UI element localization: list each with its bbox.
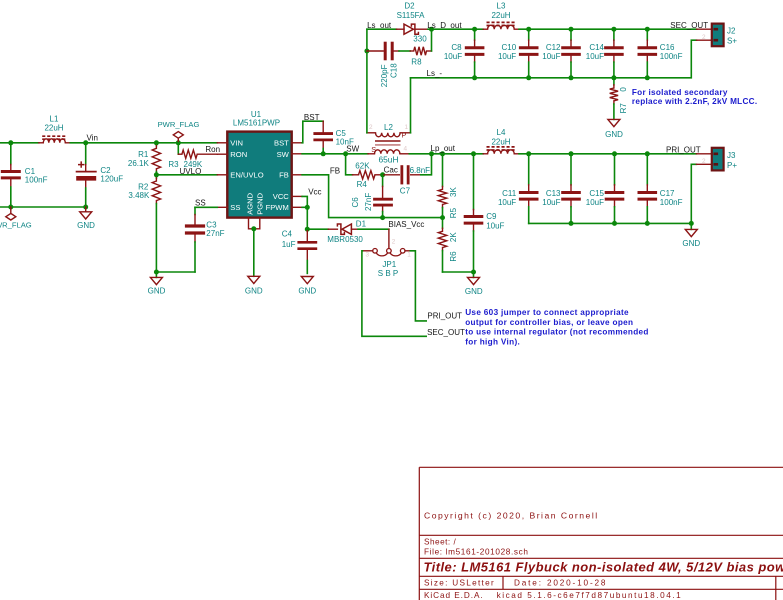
junction SW to R4 bbox=[343, 151, 348, 156]
capacitor C2 polarized bbox=[85, 143, 87, 165]
svg-text:D1: D1 bbox=[356, 219, 367, 228]
svg-text:1: 1 bbox=[407, 252, 411, 259]
wire Lp_out bbox=[409, 153, 483, 155]
wire gnd R2/C3 bbox=[156, 271, 195, 273]
junction C8 bottom bbox=[472, 75, 477, 80]
junction Cac node bbox=[380, 172, 385, 177]
pin RON stub bbox=[217, 153, 227, 155]
svg-text:Vin: Vin bbox=[87, 134, 98, 143]
wire gnd rail C1-C2 bbox=[0, 206, 86, 208]
wire L2 sec left vertical bbox=[366, 29, 368, 133]
junction R1 top bbox=[154, 140, 159, 145]
wire C18 to R8 bbox=[399, 50, 410, 52]
junction C16 bottom bbox=[645, 75, 650, 80]
svg-text:VIN: VIN bbox=[230, 138, 243, 147]
svg-text:C13: C13 bbox=[546, 189, 561, 198]
svg-text:S: S bbox=[371, 145, 376, 154]
svg-text:GND: GND bbox=[245, 286, 263, 295]
svg-text:PRI_OUT: PRI_OUT bbox=[427, 312, 462, 321]
wire R6 to gnd node bbox=[443, 271, 474, 273]
svg-text:JP1: JP1 bbox=[382, 260, 396, 269]
jumper JP1 bbox=[388, 229, 390, 248]
svg-text:Size: USLetter: Size: USLetter bbox=[424, 579, 495, 588]
ground GND below C9 bbox=[473, 272, 475, 277]
resistor R5 bbox=[442, 154, 444, 187]
pin VCC stub bbox=[292, 195, 302, 197]
svg-text:C8: C8 bbox=[451, 43, 462, 52]
svg-text:Use 603 jumper to connect appr: Use 603 jumper to connect appropriate bbox=[465, 308, 629, 317]
svg-text:22uH: 22uH bbox=[491, 137, 510, 146]
svg-text:C7: C7 bbox=[400, 187, 411, 196]
junction C10 top bbox=[526, 27, 531, 32]
pin BST stub bbox=[292, 142, 302, 144]
svg-text:C12: C12 bbox=[546, 43, 561, 52]
capacitor C3 bbox=[194, 207, 196, 214]
svg-text:C10: C10 bbox=[502, 43, 517, 52]
svg-text:Sheet: /: Sheet: / bbox=[424, 538, 456, 547]
svg-text:R7: R7 bbox=[619, 103, 628, 114]
svg-text:C4: C4 bbox=[282, 229, 293, 238]
capacitor C17 bbox=[646, 154, 648, 185]
svg-text:1uF: 1uF bbox=[282, 240, 296, 249]
junction C13 top bbox=[569, 151, 574, 156]
svg-text:D2: D2 bbox=[404, 1, 415, 10]
junction C11 top bbox=[526, 151, 531, 156]
svg-text:For isolated secondary: For isolated secondary bbox=[632, 88, 728, 97]
connector J3 bbox=[696, 153, 711, 155]
wire FPWM to C4 node bbox=[302, 207, 307, 229]
svg-text:2: 2 bbox=[702, 34, 706, 41]
svg-text:PGND: PGND bbox=[256, 192, 265, 214]
svg-text:2: 2 bbox=[392, 239, 396, 246]
junction C14 top bbox=[611, 27, 616, 32]
resistor R8 bbox=[410, 50, 414, 52]
resistor R6 bbox=[442, 218, 444, 229]
wire Ls_D_out to C8 bbox=[428, 28, 475, 30]
capacitor C14 bbox=[613, 29, 615, 40]
svg-text:GND: GND bbox=[682, 239, 700, 248]
wire EN/UVLO bbox=[156, 174, 217, 176]
svg-text:R1: R1 bbox=[138, 150, 149, 159]
svg-text:FB: FB bbox=[330, 167, 340, 176]
svg-text:C11: C11 bbox=[502, 189, 517, 198]
capacitor C15 bbox=[614, 154, 616, 185]
svg-text:SS: SS bbox=[230, 203, 240, 212]
pin FB stub bbox=[292, 174, 302, 176]
IC U1 LM5161PWP body bbox=[227, 132, 291, 218]
junction rail right bbox=[689, 221, 694, 226]
svg-text:C9: C9 bbox=[486, 212, 497, 221]
junction R5/R6 FB node bbox=[440, 215, 445, 220]
inductor L4 bbox=[483, 153, 487, 155]
svg-text:SS: SS bbox=[195, 198, 206, 207]
svg-text:RON: RON bbox=[230, 150, 247, 159]
ground GND below C2 bbox=[85, 207, 87, 212]
svg-text:C16: C16 bbox=[660, 43, 675, 52]
capacitor C13 bbox=[570, 154, 572, 185]
svg-text:C14: C14 bbox=[589, 43, 604, 52]
ground GND below C4 bbox=[301, 277, 313, 284]
svg-text:65uH: 65uH bbox=[378, 154, 398, 164]
svg-text:Ron: Ron bbox=[205, 145, 220, 154]
svg-text:GND: GND bbox=[298, 286, 316, 295]
junction C6 bottom bbox=[380, 215, 385, 220]
svg-text:0: 0 bbox=[619, 87, 628, 92]
svg-text:C15: C15 bbox=[589, 189, 604, 198]
pin PGND stub bbox=[254, 218, 260, 229]
svg-text:PRI_OUT: PRI_OUT bbox=[666, 145, 701, 154]
svg-text:P+: P+ bbox=[727, 161, 737, 170]
svg-text:EN/UVLO: EN/UVLO bbox=[230, 171, 263, 180]
svg-text:27nF: 27nF bbox=[364, 193, 373, 211]
svg-text:10uF: 10uF bbox=[498, 198, 516, 207]
junction Ls_D_out bbox=[429, 27, 434, 32]
ground GND below R2 bbox=[155, 272, 157, 277]
svg-text:to use internal regulator (not: to use internal regulator (not recommend… bbox=[465, 328, 649, 337]
svg-text:BIAS_Vcc: BIAS_Vcc bbox=[388, 220, 424, 229]
inductor L3 bbox=[475, 28, 484, 30]
svg-text:KiCad E.D.A.: KiCad E.D.A. bbox=[424, 591, 484, 600]
junction Vcc/D1/C4 bbox=[305, 227, 310, 232]
wire rail up to J3 pin2 bbox=[691, 164, 696, 223]
svg-text:MBR0530: MBR0530 bbox=[327, 235, 363, 244]
junction C9/R6 gnd bbox=[471, 270, 476, 275]
svg-text:J3: J3 bbox=[727, 151, 736, 160]
ground GND rail right bbox=[690, 223, 692, 229]
svg-text:C6: C6 bbox=[351, 197, 360, 208]
svg-text:S B P: S B P bbox=[378, 269, 398, 278]
svg-text:GND: GND bbox=[148, 286, 166, 295]
svg-text:120uF: 120uF bbox=[100, 175, 123, 184]
svg-text:3: 3 bbox=[366, 252, 370, 259]
wire Vin input line bbox=[0, 142, 39, 144]
svg-text:GND: GND bbox=[605, 130, 623, 139]
svg-text:10uF: 10uF bbox=[486, 221, 504, 230]
svg-text:S115FA: S115FA bbox=[397, 11, 426, 20]
svg-text:P: P bbox=[402, 130, 407, 139]
svg-text:replace with 2.2nF, 2kV MLCC.: replace with 2.2nF, 2kV MLCC. bbox=[632, 97, 758, 106]
svg-text:C3: C3 bbox=[206, 220, 217, 229]
svg-text:L4: L4 bbox=[497, 128, 506, 137]
svg-text:R8: R8 bbox=[411, 58, 422, 67]
junction EN node bbox=[154, 172, 159, 177]
wire L2 sec right vertical to Ls_- bbox=[410, 78, 412, 133]
junction Lp_out at C7 bbox=[429, 151, 434, 156]
junction FPWM bbox=[305, 205, 310, 210]
svg-text:C18: C18 bbox=[390, 63, 399, 78]
svg-text:Title: LM5161 Flybuck non-isol: Title: LM5161 Flybuck non-isolated 4W, 5… bbox=[424, 560, 783, 575]
pin VIN stub bbox=[217, 142, 227, 144]
capacitor C7 bbox=[383, 174, 400, 176]
svg-text:R5: R5 bbox=[449, 207, 458, 218]
wire sec top rail bbox=[519, 28, 697, 30]
svg-text:3.48K: 3.48K bbox=[128, 191, 150, 200]
svg-text:FB: FB bbox=[279, 171, 289, 180]
svg-text:Lp_out: Lp_out bbox=[431, 144, 456, 153]
pin AGND stub bbox=[249, 218, 254, 229]
pin SW stub bbox=[292, 153, 302, 155]
svg-text:SEC_OUT: SEC_OUT bbox=[670, 21, 708, 30]
resistor R3 bbox=[177, 143, 179, 154]
resistor R7 bbox=[613, 78, 615, 85]
wire SW line bbox=[302, 153, 368, 155]
svg-text:R3: R3 bbox=[168, 160, 179, 169]
wire JP1 left to SEC_OUT bbox=[362, 251, 426, 336]
diode D1 MBR0530 schottky bbox=[307, 228, 328, 230]
capacitor C11 bbox=[528, 154, 530, 185]
svg-text:100nF: 100nF bbox=[25, 175, 48, 184]
power flag PWR_FLAG top bbox=[177, 138, 179, 143]
capacitor C8 bbox=[474, 29, 476, 40]
capacitor C5 bbox=[322, 121, 324, 133]
junction C16 top bbox=[645, 27, 650, 32]
resistor R2 bbox=[155, 175, 157, 178]
svg-text:26.1K: 26.1K bbox=[128, 159, 150, 168]
svg-text:3K: 3K bbox=[449, 187, 458, 197]
pin EN/UVLO stub bbox=[217, 174, 227, 176]
svg-text:output for controller bias, or: output for controller bias, or leave ope… bbox=[465, 318, 633, 327]
svg-text:S+: S+ bbox=[727, 37, 737, 46]
capacitor C4 bbox=[306, 229, 308, 240]
title block frame bbox=[419, 467, 783, 600]
ground GND below R7 bbox=[608, 119, 620, 126]
svg-text:Ls_-: Ls_- bbox=[427, 69, 443, 78]
junction C12 top bbox=[569, 27, 574, 32]
wire Ls_out bbox=[367, 28, 397, 30]
wire SW down to R4 bbox=[346, 154, 353, 175]
svg-text:62K: 62K bbox=[355, 162, 370, 171]
junction gnd rail at C2 bbox=[83, 205, 88, 210]
svg-text:4: 4 bbox=[404, 146, 408, 153]
power flag PWR_FLAG left bbox=[10, 207, 12, 213]
svg-text:27nF: 27nF bbox=[206, 229, 224, 238]
wire primary cap rail bbox=[529, 222, 692, 224]
wire SS bbox=[195, 206, 217, 208]
diode D2 S115FA schottky bbox=[397, 28, 405, 30]
svg-text:File: lm5161-201028.sch: File: lm5161-201028.sch bbox=[424, 547, 529, 556]
svg-text:Cac: Cac bbox=[384, 165, 398, 174]
svg-text:SW: SW bbox=[346, 145, 359, 154]
pin SS stub bbox=[217, 206, 227, 208]
svg-text:GND: GND bbox=[465, 287, 483, 296]
resistor R4 bbox=[353, 174, 359, 176]
connector J2 bbox=[697, 28, 712, 30]
svg-text:LM5161PWP: LM5161PWP bbox=[233, 119, 280, 128]
svg-text:2: 2 bbox=[702, 158, 706, 165]
junction AGND/PGND bbox=[251, 226, 256, 231]
wire BIAS_Vcc bbox=[358, 228, 389, 230]
junction C17 top bbox=[645, 151, 650, 156]
ground GND below U1 bbox=[253, 229, 255, 276]
svg-text:for high Vin).: for high Vin). bbox=[465, 337, 520, 346]
svg-text:Copyright (c) 2020, Brian Corn: Copyright (c) 2020, Brian Cornell bbox=[424, 510, 599, 520]
capacitor C1 bbox=[10, 143, 12, 165]
svg-text:2: 2 bbox=[369, 124, 373, 131]
svg-text:BST: BST bbox=[274, 138, 289, 147]
svg-text:2K: 2K bbox=[449, 232, 458, 242]
junction C12 bottom bbox=[569, 75, 574, 80]
svg-text:VCC: VCC bbox=[273, 192, 290, 201]
svg-text:100nF: 100nF bbox=[660, 52, 683, 61]
pin FPWM stub bbox=[292, 206, 302, 208]
junction C10 bottom bbox=[526, 75, 531, 80]
svg-text:GND: GND bbox=[77, 221, 95, 230]
svg-text:PWR_FLAG: PWR_FLAG bbox=[158, 120, 200, 129]
svg-text:SW: SW bbox=[277, 150, 290, 159]
junction Vin at C2 bbox=[83, 140, 88, 145]
resistor R1 bbox=[155, 143, 157, 146]
svg-text:Date: 2020-10-28: Date: 2020-10-28 bbox=[514, 579, 607, 588]
wire R8 up to Ls_D_out bbox=[431, 29, 433, 51]
junction C9 top bbox=[471, 151, 476, 156]
junction C5 bottom on SW bbox=[321, 151, 326, 156]
wire JP1 right to PRI_OUT bbox=[410, 251, 426, 321]
svg-text:Vcc: Vcc bbox=[308, 187, 321, 196]
svg-text:kicad 5.1.6-c6e7f7d87ubuntu18.: kicad 5.1.6-c6e7f7d87ubuntu18.04.1 bbox=[497, 591, 683, 600]
capacitor C10 bbox=[528, 29, 530, 40]
capacitor C12 bbox=[570, 29, 572, 40]
wire BST bbox=[302, 121, 323, 143]
junction C14 bottom bbox=[611, 75, 616, 80]
svg-text:22uH: 22uH bbox=[491, 11, 510, 20]
wire Lp rail bbox=[519, 153, 696, 155]
svg-text:6.8nF: 6.8nF bbox=[410, 166, 431, 175]
capacitor C16 bbox=[646, 29, 648, 40]
wire Vin line after L1 bbox=[70, 142, 217, 144]
junction Lp_out at R5 bbox=[440, 151, 445, 156]
svg-text:L2: L2 bbox=[384, 123, 393, 132]
svg-text:220pF: 220pF bbox=[380, 64, 389, 87]
svg-text:10uF: 10uF bbox=[542, 52, 560, 61]
svg-text:L3: L3 bbox=[497, 1, 506, 10]
capacitor C9 bbox=[473, 154, 475, 210]
svg-text:AGND: AGND bbox=[245, 192, 254, 214]
junction gnd R2/C3 bbox=[154, 270, 159, 275]
svg-text:10uF: 10uF bbox=[498, 52, 516, 61]
junction gnd rail left bbox=[8, 205, 13, 210]
wire VCC bbox=[302, 196, 307, 207]
svg-text:R6: R6 bbox=[449, 251, 458, 262]
junction PWR_FLAG / R3 tap bbox=[176, 140, 181, 145]
svg-text:330: 330 bbox=[413, 34, 427, 43]
svg-text:22uH: 22uH bbox=[44, 123, 63, 132]
inductor L1 bbox=[39, 142, 44, 144]
svg-text:10uF: 10uF bbox=[586, 52, 604, 61]
svg-text:1: 1 bbox=[405, 124, 409, 131]
junction C15 top bbox=[612, 151, 617, 156]
svg-text:J2: J2 bbox=[727, 27, 736, 36]
svg-text:FPWM: FPWM bbox=[266, 203, 289, 212]
svg-text:SEC_OUT: SEC_OUT bbox=[427, 328, 465, 337]
wire Ls_- rail bbox=[411, 40, 697, 78]
junction C15 bottom bbox=[612, 221, 617, 226]
junction C1 top bbox=[8, 140, 13, 145]
svg-text:C17: C17 bbox=[660, 189, 675, 198]
svg-text:100nF: 100nF bbox=[660, 198, 683, 207]
wire FB bbox=[302, 175, 442, 218]
capacitor C18 bbox=[367, 50, 383, 52]
capacitor C6 bbox=[382, 175, 384, 187]
svg-text:10uF: 10uF bbox=[586, 198, 604, 207]
svg-text:PWR_FLAG: PWR_FLAG bbox=[0, 220, 32, 229]
junction C18 tap bbox=[364, 49, 369, 54]
svg-text:L1: L1 bbox=[50, 114, 59, 123]
svg-text:10uF: 10uF bbox=[542, 198, 560, 207]
junction C13 bottom bbox=[569, 221, 574, 226]
svg-text:10uF: 10uF bbox=[444, 52, 462, 61]
junction C17 bottom bbox=[645, 221, 650, 226]
svg-text:R4: R4 bbox=[357, 180, 368, 189]
junction C8 top bbox=[472, 27, 477, 32]
